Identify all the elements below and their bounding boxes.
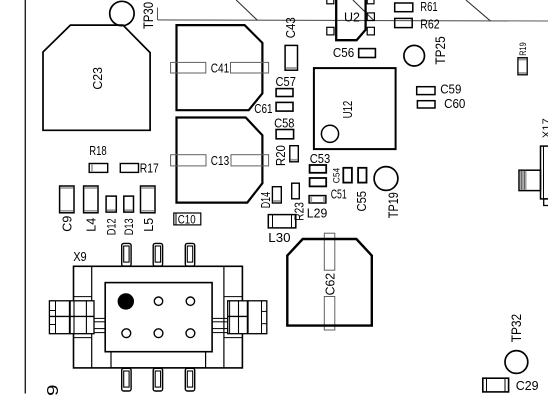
svg-text:C60: C60 — [444, 97, 465, 111]
svg-text:R18: R18 — [89, 144, 107, 158]
svg-text:L5: L5 — [142, 218, 156, 232]
svg-text:19: 19 — [45, 384, 62, 395]
svg-text:R61: R61 — [420, 0, 437, 14]
svg-text:C57: C57 — [276, 75, 296, 89]
svg-text:R19: R19 — [518, 42, 529, 56]
svg-text:C13: C13 — [211, 154, 229, 168]
svg-text:D12: D12 — [106, 218, 118, 235]
svg-text:TP25: TP25 — [433, 36, 448, 64]
svg-text:TP32: TP32 — [509, 314, 524, 343]
svg-text:R62: R62 — [420, 17, 439, 31]
svg-text:X9: X9 — [73, 250, 87, 264]
svg-text:C23: C23 — [91, 67, 105, 90]
svg-text:U12: U12 — [341, 101, 355, 119]
svg-text:L4: L4 — [84, 218, 98, 232]
svg-text:L29: L29 — [307, 207, 328, 221]
svg-text:C56: C56 — [333, 46, 354, 60]
svg-text:R20: R20 — [274, 145, 288, 166]
svg-text:C59: C59 — [440, 83, 461, 97]
svg-text:C55: C55 — [355, 191, 369, 212]
svg-text:D13: D13 — [124, 218, 136, 235]
svg-text:C43: C43 — [284, 17, 298, 38]
svg-text:R17: R17 — [140, 162, 159, 176]
svg-text:C61: C61 — [254, 102, 272, 116]
svg-text:C54: C54 — [332, 168, 343, 183]
svg-text:C53: C53 — [310, 152, 331, 166]
svg-text:C62: C62 — [323, 273, 337, 296]
svg-text:TP19: TP19 — [386, 192, 401, 218]
svg-text:C58: C58 — [274, 117, 294, 131]
svg-text:C51: C51 — [331, 187, 347, 201]
svg-text:C10: C10 — [178, 214, 196, 226]
svg-text:C9: C9 — [61, 216, 75, 232]
svg-text:C41: C41 — [211, 61, 229, 75]
svg-text:TP30: TP30 — [141, 2, 156, 29]
svg-text:R23: R23 — [293, 202, 307, 221]
svg-text:C29: C29 — [516, 379, 539, 393]
svg-text:X17: X17 — [541, 118, 548, 138]
svg-text:L30: L30 — [268, 231, 290, 245]
svg-text:U2: U2 — [344, 10, 360, 24]
svg-text:D14: D14 — [259, 192, 273, 208]
